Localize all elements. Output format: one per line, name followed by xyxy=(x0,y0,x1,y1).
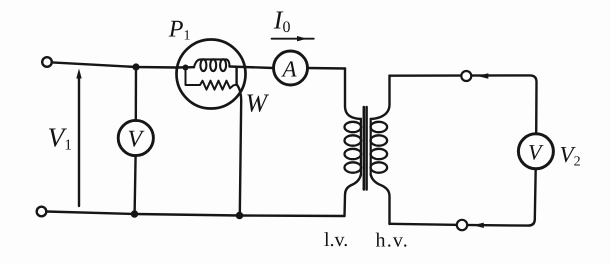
svg-text:V: V xyxy=(528,140,544,165)
wattmeter current coil xyxy=(194,59,230,67)
transformer core xyxy=(363,107,366,190)
svg-text:V: V xyxy=(128,127,145,153)
transformer lv top lead xyxy=(345,69,361,119)
transformer hv top lead xyxy=(371,76,390,119)
voltmeter V1 circle xyxy=(118,120,153,155)
terminal hv top xyxy=(461,71,471,81)
arrow V1 xyxy=(78,77,80,206)
wire ammeter to transformer xyxy=(308,67,346,70)
svg-text:P1: P1 xyxy=(168,17,191,44)
transformer hv winding xyxy=(370,119,372,175)
wire bottom rail xyxy=(47,212,345,217)
wire resistor riser xyxy=(235,68,237,85)
arrow I0 xyxy=(272,38,314,40)
node junction bottom V lead xyxy=(131,210,138,217)
svg-text:A: A xyxy=(281,57,298,82)
wire voltmeter bottom lead xyxy=(135,156,136,214)
wattmeter W circle xyxy=(177,40,246,109)
node junction wattmeter left xyxy=(183,65,189,71)
wire wattmeter to bottom rail xyxy=(237,85,241,216)
svg-text:V1: V1 xyxy=(48,122,72,154)
transformer lv winding xyxy=(360,119,362,175)
svg-text:W: W xyxy=(246,89,270,118)
terminal hv bottom xyxy=(457,220,467,230)
terminal bottom-left xyxy=(37,207,47,217)
node junction top V lead xyxy=(132,63,139,70)
svg-text:I0: I0 xyxy=(273,6,291,37)
wire voltmeter top lead xyxy=(135,67,138,121)
wattmeter voltage-coil resistor xyxy=(186,69,238,90)
svg-text:h.v.: h.v. xyxy=(376,230,410,252)
ammeter A circle xyxy=(274,51,308,85)
transformer hv bottom lead xyxy=(371,175,390,224)
node junction bottom W lead xyxy=(236,212,244,220)
transformer lv bottom lead xyxy=(345,175,361,216)
terminal top-left xyxy=(42,57,52,67)
arrow current top xyxy=(477,73,488,78)
svg-text:V2: V2 xyxy=(560,142,581,170)
arrow current bottom xyxy=(473,223,484,228)
wire hv top to V2 xyxy=(390,75,537,134)
wire through wattmeter xyxy=(177,66,194,69)
voltmeter V2 circle xyxy=(518,134,553,169)
wire top rail left xyxy=(52,62,177,67)
wire V2 bottom to hv xyxy=(390,169,536,226)
svg-text:l.v.: l.v. xyxy=(324,229,348,251)
